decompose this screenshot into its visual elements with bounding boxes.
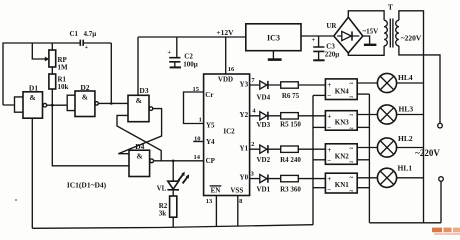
IC2 pin8 VSS wire to ground rail <box>237 196 239 227</box>
svg-text:10k: 10k <box>58 83 69 91</box>
svg-text:+: + <box>327 81 331 89</box>
D1 output bubble <box>43 103 47 107</box>
capacitor C1 <box>80 40 83 46</box>
svg-text:D1: D1 <box>29 84 38 93</box>
wire: +12V rail drop to D3 top <box>137 37 139 95</box>
stray mark <box>15 199 17 201</box>
node: LED tap junction <box>172 160 175 163</box>
potentiometer RP <box>49 50 56 67</box>
svg-text:10: 10 <box>194 136 201 143</box>
+12V rail <box>138 36 246 38</box>
diode VD4 row <box>250 84 281 86</box>
svg-text:VD2: VD2 <box>256 156 270 164</box>
svg-text:15: 15 <box>192 86 199 93</box>
svg-text:UR: UR <box>326 22 337 30</box>
wire: D1 input tie bracket <box>15 97 24 112</box>
svg-text:VL: VL <box>157 184 167 192</box>
svg-text:~15V: ~15V <box>362 27 378 35</box>
svg-text:R3 360: R3 360 <box>280 186 301 194</box>
IC2 counter box <box>204 74 250 196</box>
wire: secondary top to bridge top <box>348 11 384 20</box>
secondary winding <box>384 20 387 46</box>
svg-text:VD1: VD1 <box>256 186 270 194</box>
svg-text:VD4: VD4 <box>256 94 270 102</box>
svg-text:+: + <box>327 146 331 154</box>
wire: top-left rail and left vertical feed to D1 <box>3 43 80 105</box>
wire: KN1 common to bus <box>357 187 369 189</box>
minus bus to ground rail <box>312 95 314 225</box>
wire: long feed from R1 junction to D4 lower input <box>52 105 129 166</box>
svg-text:+12V: +12V <box>216 28 234 37</box>
relay KN3 <box>325 111 357 131</box>
svg-text:4.7μ: 4.7μ <box>84 30 97 38</box>
svg-text:Y2: Y2 <box>240 111 249 119</box>
wire: KN3 minus stub <box>313 126 325 128</box>
svg-text:~: ~ <box>349 145 353 153</box>
gate D4 <box>129 150 150 176</box>
svg-text:VD3: VD3 <box>256 121 270 129</box>
wire: D1 output to D2 input <box>47 104 67 106</box>
gate D1 <box>23 92 43 118</box>
wire: KN1 output to lamp HL1 <box>357 177 377 179</box>
diode inside bridge <box>337 35 359 37</box>
wire: KN2 minus stub <box>313 159 325 161</box>
wire: KN4 output to lamp HL4 <box>357 82 377 84</box>
svg-text:IC1(D1~D4): IC1(D1~D4) <box>67 181 107 190</box>
wire: primary top to right bus <box>399 11 424 223</box>
resistor R2 <box>170 196 177 217</box>
IC3 regulator box <box>246 24 301 51</box>
svg-text:−: − <box>327 123 331 131</box>
wire: KN2 output to lamp HL2 <box>357 147 377 149</box>
primary winding <box>396 20 399 46</box>
svg-text:T: T <box>388 2 393 11</box>
wire: D4 output to IC2 CP pin14 <box>154 160 204 162</box>
wire: KN3 common to bus <box>357 126 369 128</box>
svg-text:Y0: Y0 <box>240 174 249 182</box>
arrowhead of RP wiper <box>45 57 49 62</box>
IC2 pin15 Cr to pin1 Y5 loop <box>184 92 204 124</box>
svg-text:KN2: KN2 <box>335 152 350 160</box>
svg-text:~: ~ <box>349 187 353 195</box>
svg-text:−: − <box>327 157 331 165</box>
wire: D2 output to D3 input <box>98 102 128 104</box>
resistor R6 <box>281 82 299 88</box>
svg-text:+: + <box>167 49 171 56</box>
svg-text:C1: C1 <box>70 30 79 38</box>
svg-text:Y1: Y1 <box>240 144 249 152</box>
diode VD3 row <box>250 115 281 117</box>
resistor R5 <box>281 113 299 119</box>
IC2 pin10 Y4 stub <box>193 141 203 143</box>
svg-text:13: 13 <box>206 198 213 205</box>
LED VL light arrows <box>178 174 187 183</box>
svg-text:+: + <box>85 44 89 51</box>
lamp HL2 <box>377 138 396 157</box>
svg-text:~220V: ~220V <box>401 34 422 43</box>
wire: D2 input tie bracket <box>67 95 75 110</box>
svg-text:VDD: VDD <box>218 75 233 83</box>
svg-text:VSS: VSS <box>230 187 243 195</box>
wire: D3 lower input from cross coupling <box>117 115 161 160</box>
gate D2 <box>75 91 95 117</box>
svg-text:+: + <box>327 175 331 183</box>
wire: KN1 minus stub <box>313 187 325 189</box>
svg-text:+: + <box>312 36 316 43</box>
gate D3 <box>128 95 149 121</box>
wire: KN4 common to bus <box>357 93 369 95</box>
svg-text:KN3: KN3 <box>335 119 350 127</box>
diode VD2 row <box>250 148 281 150</box>
IC2 pin13 EN wire to ground rail <box>215 196 217 227</box>
svg-text:14: 14 <box>194 154 201 161</box>
svg-text:~: ~ <box>349 125 353 133</box>
LED VL <box>172 161 174 181</box>
svg-text:&: & <box>29 93 35 102</box>
svg-text:&: & <box>136 151 142 160</box>
relay KN1 <box>325 173 357 193</box>
svg-text:Cr: Cr <box>205 91 213 99</box>
svg-text:HL4: HL4 <box>398 73 413 82</box>
svg-text:Y4: Y4 <box>206 138 215 146</box>
node: C1/D2 junction <box>110 102 113 105</box>
wire: IC3 to bridge <box>301 35 334 37</box>
svg-text:&: & <box>136 96 142 105</box>
svg-text:Y5: Y5 <box>206 122 215 130</box>
common bus of relays <box>368 94 370 223</box>
svg-text:3k: 3k <box>159 210 167 218</box>
wire: KN4 minus stub <box>313 94 325 96</box>
svg-text:2: 2 <box>251 141 254 148</box>
relay KN2 <box>325 144 357 165</box>
svg-text:−: − <box>327 92 331 100</box>
wire: KN2 common to bus <box>357 159 369 161</box>
svg-text:R4 240: R4 240 <box>280 156 301 164</box>
svg-text:D3: D3 <box>139 86 148 95</box>
ground rail (bottom) <box>32 225 313 229</box>
wire: D1 bottom pin to ground rail <box>31 118 33 228</box>
svg-text:1M: 1M <box>58 63 69 71</box>
wire: primary bottom to mains terminal <box>399 46 440 123</box>
svg-text:D4: D4 <box>135 142 144 151</box>
wire: D3 output cross coupling to D4 input <box>118 109 161 154</box>
diode VD1 row <box>250 178 281 180</box>
svg-text:R6 75: R6 75 <box>282 92 300 100</box>
svg-text:CP: CP <box>206 157 216 165</box>
svg-text:~: ~ <box>349 174 353 182</box>
mains terminal upper <box>438 123 443 128</box>
core <box>390 19 393 48</box>
svg-text:~220V: ~220V <box>415 148 440 158</box>
capacitor C2 <box>176 37 178 57</box>
watermark <box>432 228 442 233</box>
ground at bridge minus <box>363 36 370 44</box>
lamp HL3 <box>377 105 396 124</box>
D4 output bubble <box>150 159 154 163</box>
svg-text:C2: C2 <box>184 52 193 60</box>
ground under IC3 <box>272 51 274 60</box>
svg-text:Y3: Y3 <box>240 80 249 88</box>
capacitor C3 <box>318 36 320 47</box>
svg-text:100μ: 100μ <box>183 60 198 68</box>
svg-text:KN1: KN1 <box>335 181 350 189</box>
wire: lower terminal to bottom return <box>369 181 441 223</box>
svg-text:−: − <box>327 186 331 194</box>
resistor R1 <box>49 74 56 89</box>
svg-text:&: & <box>82 93 88 102</box>
svg-text:HL2: HL2 <box>398 134 413 143</box>
lamp HL1 <box>377 168 396 187</box>
svg-text:HL1: HL1 <box>398 163 413 172</box>
wire: C1 to D2 output node <box>110 43 112 103</box>
wire: KN3 output to lamp HL3 <box>357 114 377 116</box>
svg-text:~: ~ <box>349 80 353 88</box>
wire: secondary bottom to bridge bottom <box>348 46 384 55</box>
svg-text:1: 1 <box>199 117 202 124</box>
IC2 pin 16 wire to +12V <box>225 37 227 74</box>
relay KN4 <box>325 79 357 100</box>
svg-text:IC2: IC2 <box>223 127 235 135</box>
wire: RP wiper branch with arrow <box>32 43 45 59</box>
D3 output bubble <box>149 107 153 111</box>
svg-text:D2: D2 <box>80 83 89 92</box>
svg-text:KN4: KN4 <box>335 87 350 95</box>
svg-text:HL3: HL3 <box>399 105 414 114</box>
svg-text:16: 16 <box>228 66 235 73</box>
svg-text:220μ: 220μ <box>325 50 340 58</box>
svg-text:+: + <box>327 113 331 121</box>
svg-text:IC3: IC3 <box>267 33 280 42</box>
resistor R3 <box>281 175 299 181</box>
D2 output bubble <box>95 102 98 105</box>
svg-text:EN: EN <box>211 187 221 195</box>
resistor R4 <box>281 146 299 152</box>
node: R1/D1/D2 junction <box>51 104 54 107</box>
mains terminal lower <box>439 177 444 182</box>
svg-text:~: ~ <box>349 158 353 166</box>
lamp HL4 <box>377 73 396 92</box>
svg-text:~: ~ <box>349 112 353 120</box>
svg-text:~: ~ <box>349 94 353 102</box>
svg-text:R5 150: R5 150 <box>280 121 301 129</box>
